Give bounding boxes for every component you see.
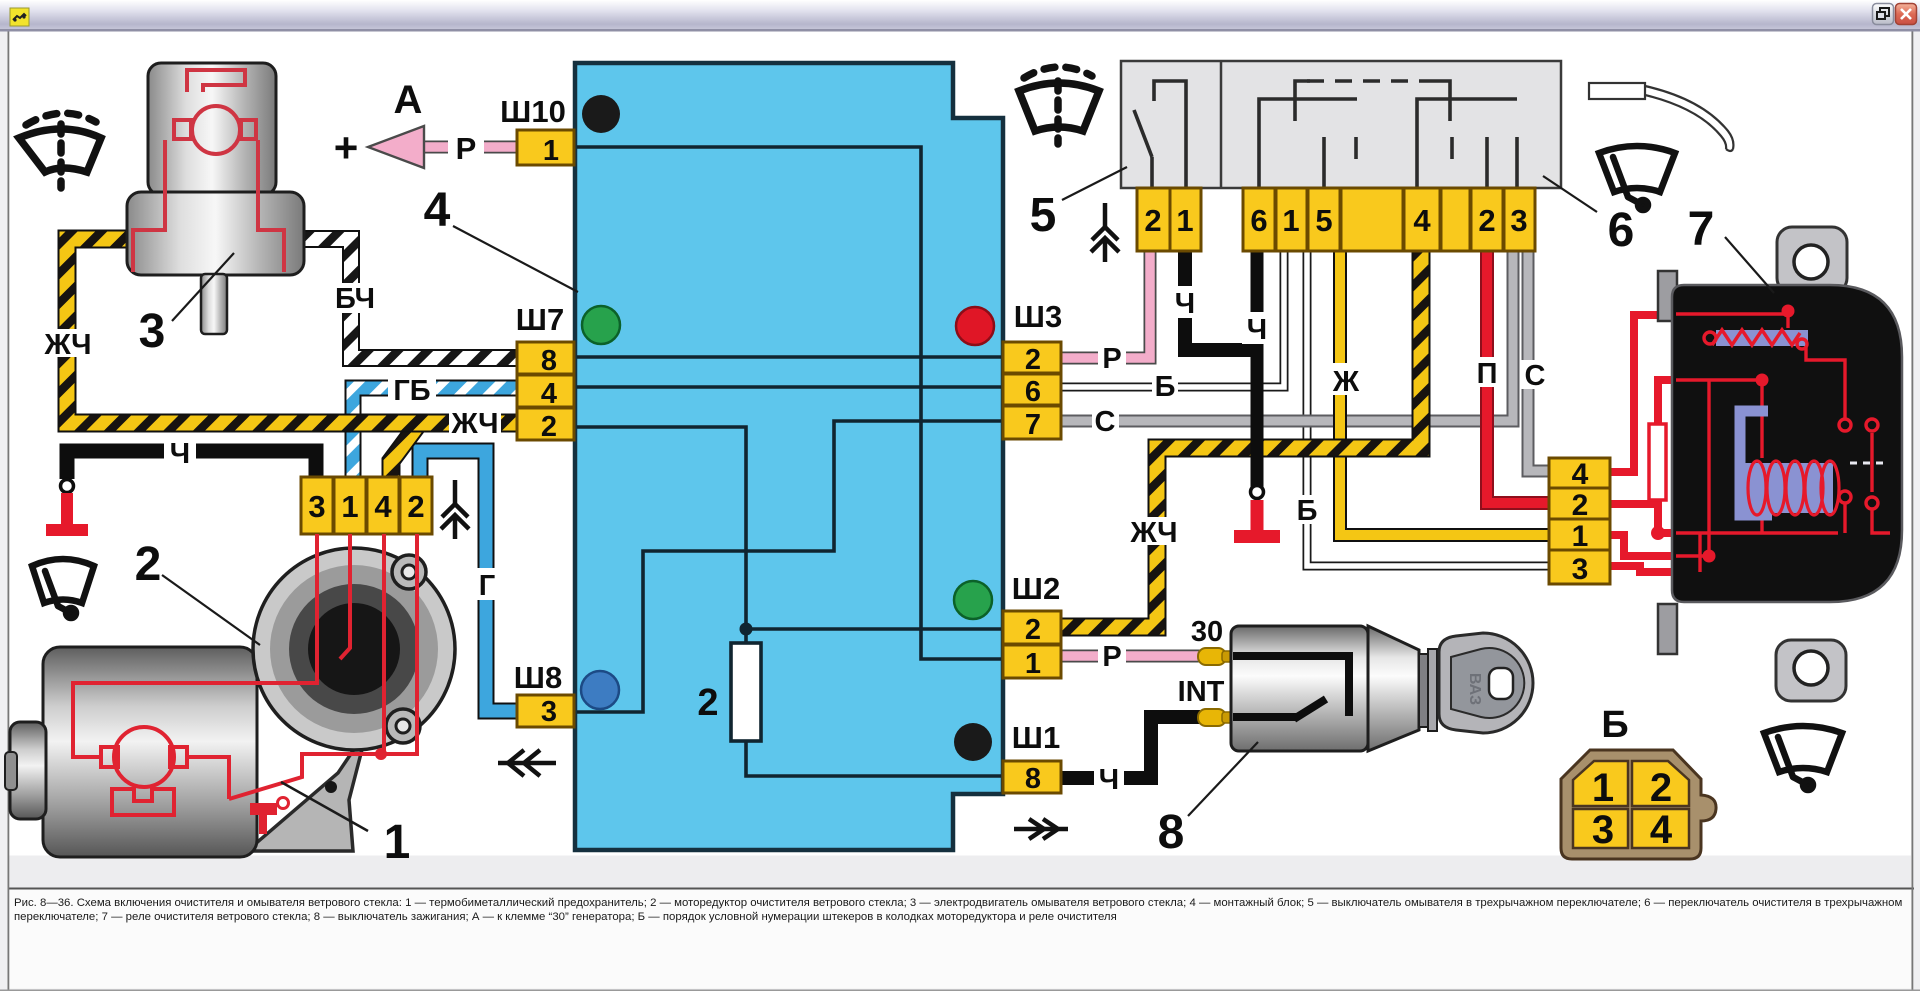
- svg-text:30: 30: [1191, 616, 1223, 648]
- label Б (at Ш3/6): [1152, 372, 1178, 399]
- svg-text:4: 4: [1572, 458, 1589, 491]
- svg-text:Р: Р: [456, 131, 477, 166]
- marker dot red (right): [956, 307, 994, 345]
- label Ч (switch pin 1 wire): [1170, 286, 1200, 318]
- svg-text:БЧ: БЧ: [335, 283, 375, 315]
- ground node (switch): [1251, 486, 1264, 499]
- wire Р (pink) Ш3/2 to switch pin 2: [1061, 251, 1150, 358]
- svg-text:ЖЧ: ЖЧ: [451, 408, 499, 440]
- svg-text:2: 2: [1650, 766, 1672, 810]
- three-lever switch assembly U5/U6: [1121, 61, 1561, 251]
- node (block junction): [740, 623, 753, 636]
- relay pins column 4,2,1,3: [1549, 458, 1610, 488]
- svg-text:ЖЧ: ЖЧ: [44, 329, 92, 361]
- wire БЧ (white-black) washer motor to Ш7/8: [296, 239, 517, 358]
- wire Г (blue) Ш8/3 to motor connector pin 2: [420, 451, 517, 711]
- svg-text:+: +: [334, 124, 359, 171]
- connector Ш3 pins 2,6,7: [1003, 342, 1061, 373]
- bolt dot: [325, 781, 337, 793]
- label ЖЧ (horizontal run): [449, 408, 501, 436]
- red internal circuit of washer motor: [187, 70, 245, 92]
- svg-text:Б: Б: [1155, 371, 1176, 403]
- pink arrow head: [368, 126, 424, 168]
- svg-text:5: 5: [1030, 189, 1057, 242]
- washer switch contacts (5): [1134, 81, 1186, 188]
- switch body cylinder: [1231, 626, 1368, 751]
- svg-text:2: 2: [1025, 614, 1041, 646]
- wire red relay pin 4 to relay case: [1609, 315, 1676, 472]
- wiper motor gearbox assembly U1/U2 (моторедуктор): [5, 534, 455, 857]
- svg-text:4: 4: [374, 489, 392, 524]
- wire С (gray) switch pin 3 to relay pin 4: [1528, 251, 1549, 471]
- svg-text:1: 1: [1176, 203, 1193, 238]
- wiper icon (bottom right): [1764, 726, 1842, 790]
- svg-text:Рис. 8—36. Схема включения очи: Рис. 8—36. Схема включения очистителя и …: [14, 897, 1903, 909]
- svg-text:1: 1: [543, 135, 559, 167]
- svg-text:2: 2: [1478, 203, 1495, 238]
- svg-text:1: 1: [384, 816, 411, 869]
- connector Ш8 pin 3: [517, 695, 574, 727]
- svg-text:Р: Р: [1102, 343, 1121, 375]
- svg-text:3: 3: [139, 305, 166, 358]
- connector Б (колодка): [1561, 704, 1716, 859]
- svg-text:переключателе; 7 — реле очисти: переключателе; 7 — реле очистителя ветро…: [14, 911, 1117, 923]
- svg-text:8: 8: [1158, 806, 1185, 859]
- svg-text:8: 8: [541, 345, 557, 377]
- svg-text:4: 4: [1650, 808, 1673, 852]
- svg-text:С: С: [1095, 406, 1116, 438]
- label Ч (left ground wire): [164, 437, 196, 467]
- wire inside block: Ш8/3 to Ш3/7: [577, 421, 1001, 712]
- wire Ч (black) ground to motor connector pin 3: [67, 451, 316, 479]
- relay case ears: [1658, 271, 1677, 321]
- gear neck: [247, 730, 367, 851]
- svg-text:С: С: [1525, 360, 1546, 392]
- motor connector pins 3,1,4,2 (колодка моторедуктора): [301, 477, 333, 534]
- svg-text:1: 1: [1592, 766, 1614, 810]
- wire inside block: Ш7/8 to Ш3/2: [577, 355, 1001, 359]
- svg-text:Ж: Ж: [1332, 366, 1360, 398]
- label ЖЧ (left vertical run): [42, 329, 94, 357]
- svg-text:Ч: Ч: [170, 438, 190, 470]
- svg-text:INT: INT: [1178, 676, 1225, 708]
- relay main coil: [1745, 463, 1833, 513]
- svg-text:3: 3: [1510, 203, 1527, 238]
- marker dot green (left): [582, 306, 620, 344]
- svg-text:Ч: Ч: [1247, 314, 1267, 346]
- washer icon (top left): [19, 113, 101, 188]
- relay body: [1672, 285, 1902, 602]
- wire С (gray) Ш3/7 to switch pin 3: [1061, 251, 1513, 421]
- wire Р (pink) Ш2/1 to ignition terminal 30: [1061, 650, 1200, 663]
- wire П (red) switch pin 2 to relay pin 2: [1487, 251, 1549, 503]
- label С (at Ш3/7): [1092, 407, 1119, 434]
- relay U7 (реле очистителя): [1549, 227, 1902, 701]
- marker dot blue (left): [581, 671, 619, 709]
- label Ж: [1328, 363, 1357, 395]
- washer icon (top middle): [1019, 67, 1099, 144]
- svg-text:2: 2: [407, 489, 424, 524]
- label ЖЧ (Ш2 riser): [1128, 517, 1180, 545]
- ignition switch U8 (выключатель зажигания): [1178, 616, 1533, 751]
- switch cone: [1368, 626, 1419, 751]
- svg-text:Б: Б: [1297, 495, 1318, 527]
- motor ground (thermal contact): [278, 798, 289, 809]
- wiper switch contacts (6): [1259, 81, 1517, 188]
- relay mounting tab top: [1777, 227, 1847, 293]
- svg-text:Г: Г: [479, 570, 495, 602]
- wire Ч (black) switch pin 6 down to ground node: [1251, 251, 1264, 487]
- wiper icon (right, near switch): [1599, 146, 1675, 210]
- marker dot green (right): [954, 581, 992, 619]
- svg-text:2: 2: [1572, 489, 1589, 522]
- relay bimetal coil core: [1716, 330, 1808, 346]
- svg-text:4: 4: [424, 184, 451, 237]
- svg-text:Ш8: Ш8: [514, 660, 562, 695]
- window icon: [10, 8, 29, 26]
- svg-text:3: 3: [1592, 808, 1614, 852]
- wire Ч (black) Ш1/8 to ignition terminal INT: [1061, 717, 1200, 778]
- wire Ж (yellow) switch pin 5 to relay pin 1: [1340, 251, 1549, 535]
- terminal 30: [1198, 648, 1226, 665]
- relay internal circuit (red): [1676, 314, 1890, 572]
- svg-text:7: 7: [1688, 203, 1715, 256]
- ground node (left): [61, 480, 74, 493]
- label Ч (at Ш1/8): [1094, 763, 1124, 793]
- svg-text:1: 1: [1282, 203, 1299, 238]
- label Б (relay drop wire): [1294, 495, 1321, 524]
- svg-text:3: 3: [1572, 553, 1589, 586]
- svg-text:4: 4: [1413, 203, 1431, 238]
- motor cylinder: [43, 647, 257, 857]
- wire Б (white) switch pin 1 to relay pin 3: [1307, 251, 1549, 566]
- svg-text:8: 8: [1025, 763, 1041, 795]
- wire Р (pink) arrow A to Ш10/1: [424, 141, 517, 154]
- svg-text:6: 6: [1250, 203, 1267, 238]
- close window button: [1896, 4, 1917, 25]
- wire ЖЧ (yellow-black) Ш2/2 to switch pin 4: [1061, 251, 1421, 627]
- svg-text:2: 2: [135, 538, 162, 591]
- connector Ш1 pin 8: [1003, 761, 1061, 793]
- svg-text:Ш7: Ш7: [516, 302, 564, 337]
- svg-text:2: 2: [1025, 344, 1041, 376]
- svg-text:П: П: [1477, 358, 1498, 390]
- red internal circuit of wiper motor: [73, 534, 417, 815]
- fuse F2 (термобиметаллический предохранитель 2): [746, 629, 1001, 776]
- svg-text:Р: Р: [1102, 641, 1121, 673]
- label БЧ: [330, 283, 380, 313]
- switch pins row: [1137, 188, 1535, 251]
- svg-text:Ш1: Ш1: [1012, 720, 1060, 755]
- label П: [1472, 357, 1502, 387]
- red junction dots: [1782, 305, 1795, 318]
- wire red relay pin 3 to relay case: [1609, 566, 1700, 572]
- connector Ш7 pins 8,4,2: [517, 342, 574, 374]
- washer pump motor U3 (электродвигатель омывателя): [127, 63, 304, 334]
- wiper arm icon (top right): [1589, 83, 1733, 151]
- wire inside block: Ш7/2 to node: [577, 427, 746, 629]
- collar rings: [1419, 654, 1428, 727]
- svg-text:А: А: [394, 78, 423, 122]
- wire ЖЧ (yellow-black) washer motor to Ш7/2: [67, 239, 517, 423]
- mounting ear top: [392, 555, 426, 589]
- junction dot red: [1651, 526, 1665, 540]
- svg-text:ГБ: ГБ: [393, 375, 430, 407]
- label Ч (switch pin 6 wire): [1242, 312, 1272, 344]
- svg-text:3: 3: [308, 489, 325, 524]
- svg-text:4: 4: [541, 378, 557, 410]
- wire red relay pin 1 to relay case: [1609, 535, 1676, 556]
- svg-text:5: 5: [1315, 203, 1332, 238]
- svg-text:ЖЧ: ЖЧ: [1130, 517, 1178, 549]
- wire Ч (black) switch pin 1 elbow to ground stem: [1185, 251, 1252, 350]
- mounting ear bottom: [386, 709, 420, 743]
- ground symbol (left): [61, 493, 73, 525]
- terminal INT: [1198, 709, 1226, 726]
- restore window button: [1873, 4, 1894, 25]
- label С (switch pin 3 wire): [1521, 360, 1548, 389]
- marker dot black (top): [582, 95, 620, 133]
- svg-text:6: 6: [1608, 204, 1635, 257]
- svg-text:2: 2: [541, 411, 557, 443]
- relay mounting tab bottom: [1776, 640, 1846, 701]
- key: [1439, 633, 1533, 733]
- svg-text:Ш10: Ш10: [500, 94, 566, 129]
- continuation arrow left (≪): [498, 750, 556, 776]
- svg-text:Ч: Ч: [1175, 288, 1195, 320]
- wire ЖЧ (yellow-black) branch to motor connector pin 4: [391, 426, 417, 478]
- svg-text:Ш2: Ш2: [1012, 571, 1060, 606]
- svg-text:3: 3: [541, 696, 557, 728]
- svg-text:2: 2: [1144, 203, 1161, 238]
- wire red relay pin 2 to junction and resistor: [1609, 380, 1676, 533]
- washer jet symbol (at motor connector): [441, 480, 469, 539]
- svg-text:Ч: Ч: [1099, 764, 1119, 796]
- svg-text:Ш3: Ш3: [1014, 299, 1062, 334]
- svg-text:6: 6: [1025, 376, 1041, 408]
- svg-text:Б: Б: [1601, 704, 1628, 746]
- continuation arrow right (≫): [1014, 819, 1068, 839]
- marker dot black (bottom): [954, 723, 992, 761]
- wire inside block: node to Ш2/2: [746, 627, 1001, 631]
- relay coil yoke (blue bracket): [1740, 411, 1772, 515]
- contact symbol inside: [1233, 656, 1349, 717]
- relay contacts: [1839, 419, 1851, 431]
- wire Б (white) Ш3/6 to switch pin 1: [1061, 251, 1284, 387]
- washer jet symbol (below switch 5): [1091, 203, 1119, 262]
- svg-text:7: 7: [1025, 409, 1041, 441]
- wire ГБ (blue-white) Ш7/4 to motor connector pin 1: [353, 388, 517, 477]
- svg-text:ВАЗ: ВАЗ: [1466, 673, 1483, 705]
- label Г (blue wire): [472, 568, 502, 600]
- svg-text:1: 1: [1572, 520, 1589, 553]
- label Р (at Ш2/1): [1098, 642, 1126, 669]
- ground symbol (switch): [1251, 500, 1264, 532]
- svg-text:1: 1: [1025, 648, 1041, 680]
- label Р (at Ш3/2): [1098, 344, 1126, 371]
- label ГБ: [388, 376, 436, 403]
- resistor (relay series resistor): [1649, 424, 1666, 500]
- window titlebar: [0, 0, 1920, 30]
- svg-text:2: 2: [697, 682, 718, 724]
- svg-text:1: 1: [341, 489, 358, 524]
- wiper icon (bottom left): [32, 559, 94, 618]
- wire inside block: Ш7/4 to Ш3/6: [577, 385, 1001, 389]
- gear housing rings: [253, 548, 455, 750]
- connector Ш2 pins 2,1: [1003, 611, 1061, 644]
- connector Ш10 pin 1: [517, 130, 574, 165]
- mounting block U4 (монтажный блок): [575, 63, 1003, 850]
- wire inside block: Ш10/1 to Ш2/1: [577, 147, 1001, 659]
